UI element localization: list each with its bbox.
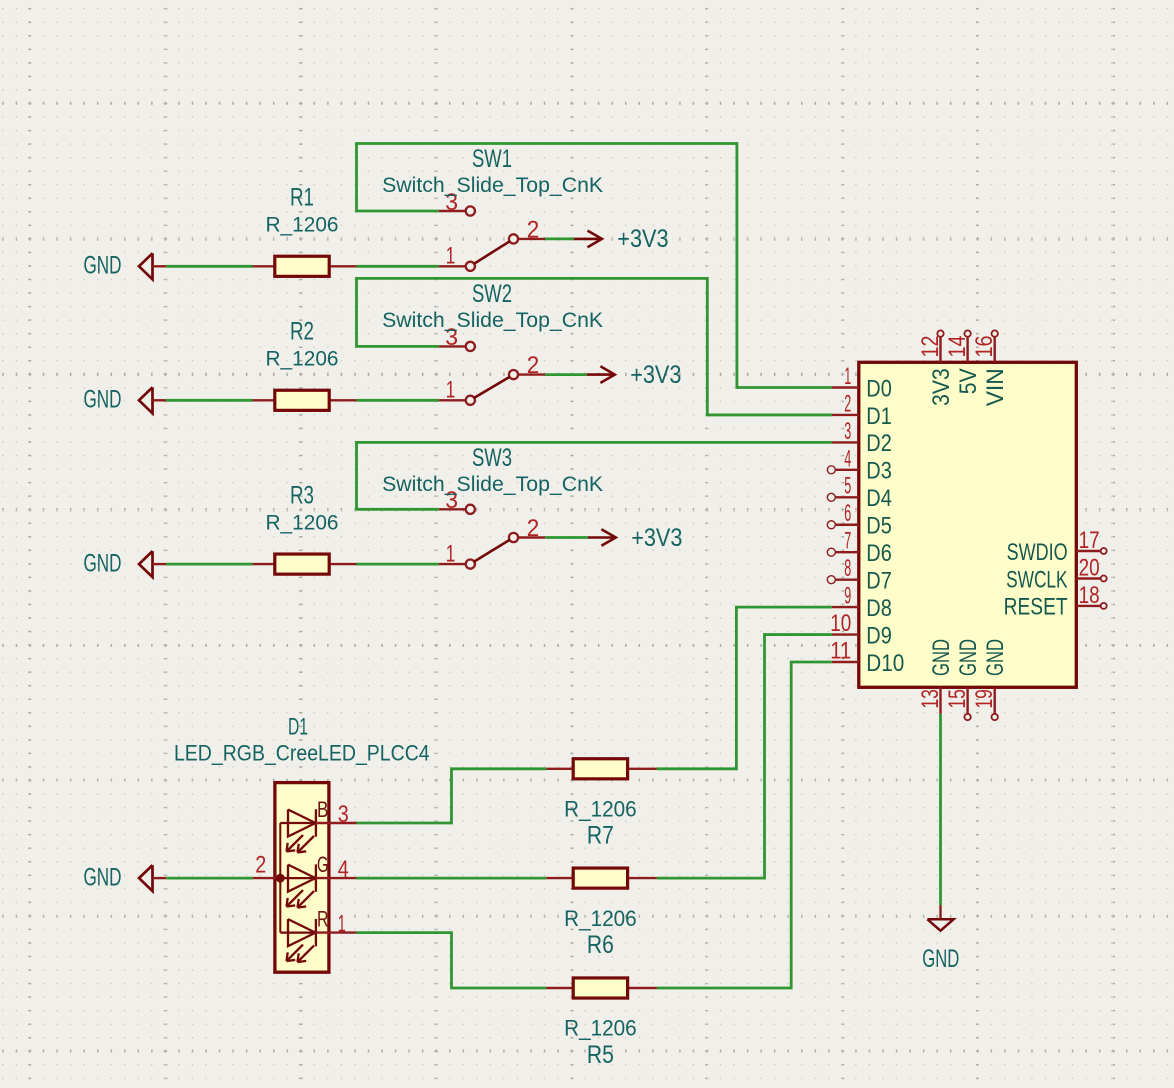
svg-text:RESET: RESET [1004,594,1068,621]
wire [657,662,832,988]
label R7 / R_1206 [564,797,637,850]
pin number 2 of SW3 [527,515,540,542]
switch SW2 [439,342,545,405]
wire [939,714,942,905]
ic U1 pin 16 VIN [971,330,1009,406]
ic U1 pin 2 D1 [832,390,892,429]
pin number 2 of SW1 [527,217,540,244]
ic U1 pin 5 D4 [827,473,892,512]
svg-text:R_1206: R_1206 [266,348,339,371]
svg-text:13: 13 [917,689,944,709]
svg-text:R2: R2 [290,318,314,346]
wire [357,278,832,415]
svg-text:B: B [317,797,329,822]
svg-text:D0: D0 [866,375,892,402]
svg-text:2: 2 [527,217,540,244]
svg-text:R: R [317,906,329,931]
ic U1 pin 10 D9 [830,610,892,649]
svg-text:19: 19 [971,689,998,709]
svg-text:D1: D1 [288,714,308,741]
svg-text:D4: D4 [866,485,892,512]
svg-text:1: 1 [446,541,456,568]
svg-text:+3V3: +3V3 [631,524,682,552]
led pin name G [317,852,329,877]
wire [357,144,832,388]
ground GND net SW3 row [84,549,167,577]
junction at D1 pin 2 [276,874,285,883]
svg-text:Switch_Slide_Top_CnK: Switch_Slide_Top_CnK [382,473,603,496]
svg-text:3V3: 3V3 [928,368,955,406]
svg-text:1: 1 [844,363,851,390]
svg-text:D9: D9 [866,622,892,649]
svg-text:1: 1 [446,377,456,404]
wire [545,373,587,376]
svg-text:SW3: SW3 [472,444,512,472]
ic U1 pin 8 D7 [827,555,892,594]
label Switch_Slide_Top_CnK of SW3 [382,473,603,496]
svg-text:15: 15 [944,689,971,709]
wire [657,607,832,769]
svg-text:Switch_Slide_Top_CnK: Switch_Slide_Top_CnK [382,309,603,332]
wire [357,933,547,988]
svg-text:4: 4 [844,445,851,472]
led D1 pin 1 [316,931,357,933]
resistor R7 [546,759,657,779]
svg-text:R_1206: R_1206 [564,906,637,931]
ground GND net SW2 row [84,386,167,414]
svg-text:2: 2 [527,352,540,379]
ic U1 body [859,362,1077,687]
ic U1 pin 13 GND [917,639,955,714]
wire [166,563,253,566]
svg-text:D1: D1 [866,403,892,430]
wire [357,399,439,402]
pin number 3 of SW1 [445,189,458,216]
svg-text:GND: GND [84,386,122,414]
svg-text:2: 2 [255,851,266,878]
svg-text:VIN: VIN [982,368,1009,406]
svg-text:R1: R1 [290,184,314,212]
svg-text:12: 12 [917,336,944,358]
svg-text:+3V3: +3V3 [617,225,668,253]
led D1 pin 4 [316,877,357,879]
ic U1 pin 18 RESET [1004,582,1107,621]
wire [357,563,439,566]
wire [357,877,547,880]
pin number 1 of SW2 [446,377,456,404]
led D1 body [275,783,329,973]
svg-text:R6: R6 [587,931,614,959]
label R5 / R_1206 [564,1016,637,1069]
led D1 element G [280,864,316,907]
svg-text:17: 17 [1079,527,1100,554]
svg-text:GND: GND [982,639,1009,676]
resistor R3 [253,554,357,574]
ic U1 pin 11 D10 [830,637,904,676]
svg-text:D3: D3 [866,458,892,485]
svg-text:R3: R3 [290,481,314,509]
svg-text:18: 18 [1079,582,1100,609]
svg-text:R_1206: R_1206 [564,1016,637,1041]
svg-text:D6: D6 [866,540,892,567]
svg-text:4: 4 [338,856,349,883]
ic U1 pin 20 SWCLK [1006,555,1107,594]
label SW1 [472,145,512,173]
pin number 1 of SW3 [446,541,456,568]
label R3 / R_1206 [266,481,339,534]
switch SW3 [439,505,545,569]
ic U1 pin 12 3V3 [917,330,955,406]
svg-text:SWDIO: SWDIO [1007,539,1068,566]
wire [166,399,253,402]
ic U1 pin 15 GND [944,639,982,720]
label D1 [288,714,308,741]
label Switch_Slide_Top_CnK of SW2 [382,309,603,332]
svg-text:G: G [317,852,329,877]
svg-text:9: 9 [844,583,851,610]
led pin number 3 [338,801,349,828]
wire [545,237,574,240]
resistor R2 [253,390,357,410]
wire [166,265,253,268]
label R6 / R_1206 [564,906,637,959]
resistor R1 [253,256,357,276]
led D1 anode bus [279,823,281,933]
ic U1 pin 7 D6 [827,528,892,567]
svg-text:GND: GND [922,945,959,973]
ic U1 pin 6 D5 [827,500,892,539]
svg-text:D8: D8 [866,595,892,622]
wire [657,635,832,879]
svg-text:R5: R5 [587,1041,614,1069]
svg-text:1: 1 [338,910,346,937]
wire [545,536,588,539]
svg-text:1: 1 [446,243,456,270]
switch SW1 [439,206,545,271]
ground GND under ic [922,905,959,973]
label LED_RGB_CreeLED_PLCC4 [174,741,430,766]
svg-text:LED_RGB_CreeLED_PLCC4: LED_RGB_CreeLED_PLCC4 [174,741,430,766]
svg-text:8: 8 [844,555,851,582]
svg-text:SW2: SW2 [472,280,512,308]
svg-text:GND: GND [84,549,122,577]
led pin name R [317,906,329,931]
ic U1 pin 1 D0 [832,363,892,402]
svg-text:20: 20 [1079,555,1100,582]
label R1 / R_1206 [266,184,339,237]
power +3V3 at SW1 [574,225,669,253]
svg-text:GND: GND [955,639,982,676]
wire [357,265,439,268]
svg-text:6: 6 [844,500,851,527]
resistor R5 [546,978,657,998]
ic U1 pin 17 SWDIO [1007,527,1107,566]
svg-text:D5: D5 [866,513,892,540]
svg-text:Switch_Slide_Top_CnK: Switch_Slide_Top_CnK [382,174,603,197]
svg-text:5V: 5V [955,368,982,394]
svg-text:R_1206: R_1206 [564,797,637,822]
pin number 1 of SW1 [446,243,456,270]
svg-text:2: 2 [844,390,851,417]
power +3V3 at SW3 [588,524,683,552]
svg-text:SWCLK: SWCLK [1006,566,1068,593]
label SW3 [472,444,512,472]
svg-text:R_1206: R_1206 [266,511,339,534]
resistor R6 [546,868,657,888]
ic U1 pin 9 D8 [832,583,892,622]
pin number 2 of SW2 [527,352,540,379]
svg-text:7: 7 [844,528,851,555]
svg-text:SW1: SW1 [472,145,512,173]
power +3V3 at SW2 [587,361,682,389]
led D1 pin 3 [316,822,357,824]
pin number 3 of SW2 [445,324,458,351]
wire [166,877,253,880]
ground GND net SW1 row [84,252,167,280]
led pin number 1 [338,910,346,937]
wire [357,442,832,509]
ic U1 pin 19 GND [971,639,1009,720]
ic U1 pin 3 D2 [832,418,892,457]
label Switch_Slide_Top_CnK of SW1 [382,174,603,197]
wire [357,769,547,823]
svg-text:2: 2 [527,515,540,542]
ground GND net LED row [84,863,167,891]
svg-text:14: 14 [944,336,971,358]
svg-text:+3V3: +3V3 [630,361,681,389]
svg-text:11: 11 [830,637,851,664]
ic U1 pin 14 5V [944,330,982,394]
led pin number 4 [338,856,349,883]
svg-text:3: 3 [844,418,851,445]
label R2 / R_1206 [266,318,339,371]
svg-text:GND: GND [84,252,122,280]
svg-text:R7: R7 [587,822,614,850]
svg-text:GND: GND [928,639,955,676]
pin number 3 of SW3 [445,487,458,514]
svg-text:GND: GND [84,863,122,891]
label SW2 [472,280,512,308]
svg-text:D7: D7 [866,567,892,594]
led D1 element R [280,919,316,962]
led D1 element B [280,809,316,852]
svg-text:3: 3 [338,801,349,828]
led D1 pin 2 stub [253,851,280,878]
svg-text:R_1206: R_1206 [266,214,339,237]
svg-text:D2: D2 [866,430,892,457]
svg-text:D10: D10 [866,650,904,677]
svg-text:5: 5 [844,473,851,500]
ic U1 pin 4 D3 [827,445,892,484]
svg-text:10: 10 [830,610,851,637]
led pin name B [317,797,329,822]
svg-text:16: 16 [971,336,998,358]
